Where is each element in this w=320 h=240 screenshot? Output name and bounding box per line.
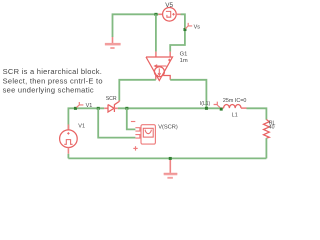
ground (bottom) (164, 160, 178, 178)
wire: G1 left output to SCR gate (119, 80, 156, 101)
wire: V(SCR) minus lead (127, 108, 136, 129)
thyristor SCR (104, 100, 119, 112)
node: junction dot L1 branch (205, 107, 208, 110)
wire: G1 right output down to main rail (170, 80, 206, 109)
resistor RL (264, 120, 270, 139)
svg-text:see underlying schematic: see underlying schematic (3, 86, 94, 95)
node: junction dot V(SCR) plus tap (97, 107, 100, 110)
node: junction dot V(SCR) minus tap (125, 107, 128, 110)
svg-text:40: 40 (269, 125, 275, 131)
svg-text:V1: V1 (86, 103, 93, 109)
annotation text (3, 67, 103, 95)
voltage source V5 (158, 8, 180, 22)
controlled source G1 (146, 57, 173, 81)
wire: main rail middle (118, 107, 220, 109)
svg-text:SCR: SCR (106, 96, 117, 102)
wire: V(SCR) plus lead (98, 108, 135, 137)
inductor L1 (220, 104, 247, 108)
wire: V5 plus down to G1 plus input (170, 14, 185, 51)
differential marker V(SCR) (131, 122, 156, 151)
svg-text:V5: V5 (165, 2, 173, 9)
node: junction dot bottom ground (169, 157, 172, 160)
wire: rail to RL corner (247, 108, 267, 120)
wire: V1 bottom to rail (67, 154, 69, 159)
svg-text:V1: V1 (78, 123, 85, 129)
node: junction dot V1 probe (74, 107, 77, 110)
probe marker Vs (185, 23, 192, 29)
svg-text:1m: 1m (180, 58, 188, 64)
svg-text:V(SCR): V(SCR) (158, 124, 178, 130)
voltage source V1 (60, 125, 78, 154)
wire: top ground riser and horizontal to V5 (113, 14, 159, 37)
svg-text:SCR is a hierarchical block.: SCR is a hierarchical block. (3, 67, 103, 76)
wire: V1 riser and main rail left part (68, 108, 104, 130)
wire: G1 minus input vertical (155, 14, 157, 51)
node: junction dot at V5 left / G1 minus input (154, 13, 157, 16)
svg-text:25m IC=0: 25m IC=0 (223, 98, 247, 104)
wire: bottom rail (68, 157, 266, 159)
svg-text:I(L1): I(L1) (200, 101, 211, 107)
current marker I(L1) (214, 102, 220, 108)
svg-text:Vs: Vs (194, 24, 201, 30)
ground (top) (105, 37, 121, 48)
node: current marker attachment square (220, 108, 223, 111)
wire: RL down to bottom rail (265, 138, 267, 158)
svg-text:G1: G1 (180, 52, 188, 58)
svg-text:Select, then press cntrl-E to: Select, then press cntrl-E to (3, 76, 103, 85)
probe marker V1 (77, 102, 84, 107)
node: junction dot for Vs marker (183, 28, 186, 31)
svg-text:L1: L1 (232, 113, 238, 119)
